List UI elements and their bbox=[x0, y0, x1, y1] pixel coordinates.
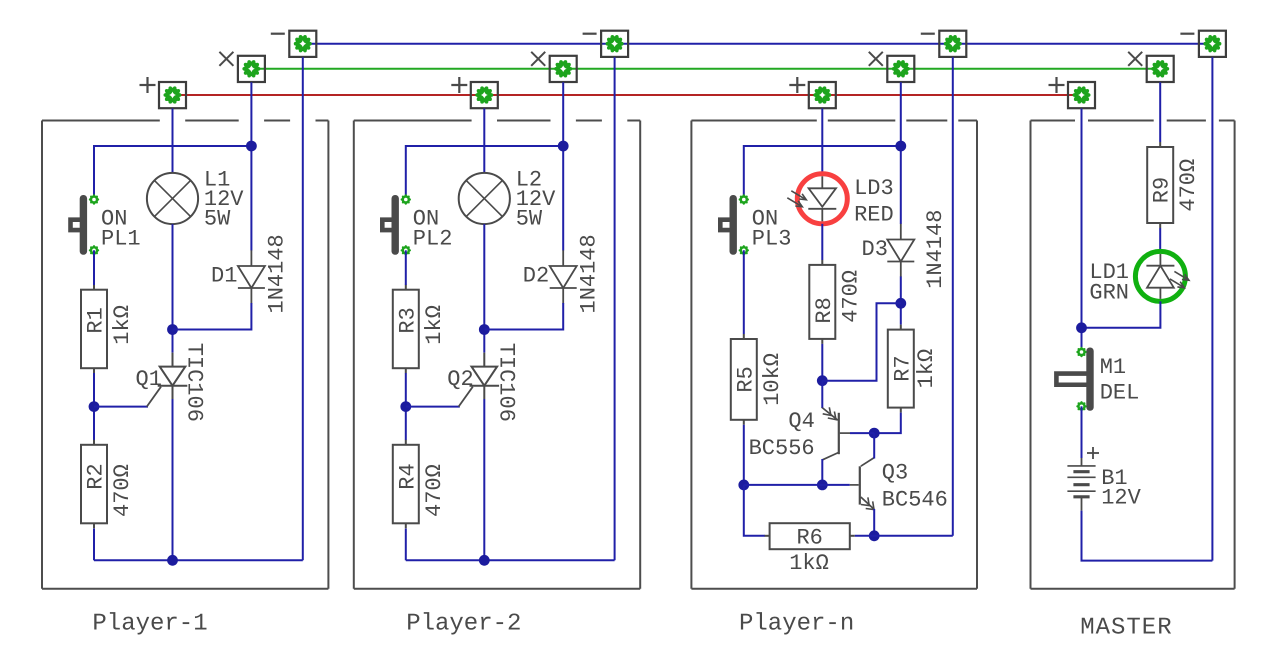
box Player-n outline bbox=[691, 121, 977, 589]
wire SCR cathode to bottom bbox=[172, 399, 174, 560]
wire Q3 collector to node bbox=[873, 433, 875, 458]
wire Q4 emitter from node bbox=[821, 381, 823, 408]
svg-text:DEL: DEL bbox=[1100, 380, 1140, 405]
wire R5 bottom to base rail bbox=[743, 425, 745, 485]
wire x terminal to R9 bbox=[1159, 82, 1161, 142]
wire R6 to bottom rail bbox=[855, 535, 953, 537]
svg-text:R2: R2 bbox=[84, 463, 109, 489]
resistor R2 bbox=[81, 440, 107, 529]
node junction bottom rail / SCR bbox=[479, 555, 490, 566]
wire - terminal down bbox=[614, 57, 616, 560]
wire top horizontal to pushbutton bbox=[406, 146, 563, 200]
svg-text:Q2: Q2 bbox=[447, 367, 473, 392]
svg-text:R3: R3 bbox=[395, 307, 420, 333]
wire R bottom to bottom rail bbox=[405, 529, 407, 561]
wire M1 to battery bbox=[1081, 406, 1083, 458]
svg-text:Q4: Q4 bbox=[788, 409, 814, 434]
resistor R1 bbox=[81, 285, 107, 374]
wire LD1 to + line bbox=[1082, 301, 1161, 327]
wire + terminal down to M1 bbox=[1081, 109, 1083, 353]
box Player-2 outline bbox=[354, 121, 640, 589]
wire top horizontal to pushbutton PL3 bbox=[744, 146, 901, 200]
resistor R6 (horizontal) bbox=[765, 523, 855, 549]
label R7 1k bbox=[890, 349, 939, 389]
svg-text:1kΩ: 1kΩ bbox=[110, 305, 135, 345]
node junction Q4 base / R7 / Q3 collector bbox=[869, 428, 880, 439]
thyristor Q2 bbox=[459, 353, 500, 407]
wire + terminal to LED LD3 bbox=[821, 109, 823, 174]
node junction gate bbox=[400, 401, 411, 412]
svg-text:R8: R8 bbox=[812, 297, 837, 323]
transistor Q4 BC556 (PNP) bbox=[822, 407, 875, 460]
svg-text:12V: 12V bbox=[1101, 485, 1141, 510]
svg-text:R7: R7 bbox=[890, 355, 915, 381]
wire lamp to SCR anode bbox=[483, 224, 485, 352]
wire R8 bottom to emitter node bbox=[821, 344, 823, 381]
LED LD3 (red) bbox=[787, 174, 847, 224]
svg-text:TIC106: TIC106 bbox=[182, 343, 207, 422]
terminal x (Player-n) bbox=[869, 52, 915, 82]
wire lamp to SCR anode bbox=[172, 224, 174, 352]
svg-text:Player-2: Player-2 bbox=[406, 611, 521, 638]
label R3 1k bbox=[395, 305, 447, 345]
svg-text:470Ω: 470Ω bbox=[110, 464, 135, 517]
wire top horizontal to pushbutton bbox=[94, 146, 251, 200]
svg-text:D2: D2 bbox=[523, 264, 549, 289]
node junction R5 / base rail / R6 bbox=[738, 480, 749, 491]
wire Q4 collector to base rail bbox=[821, 459, 823, 485]
diode D3 bbox=[887, 224, 914, 277]
svg-text:R5: R5 bbox=[733, 366, 758, 392]
transistor Q3 BC546 (NPN) bbox=[850, 458, 874, 510]
svg-text:LD3: LD3 bbox=[854, 176, 894, 201]
svg-text:1N4148: 1N4148 bbox=[265, 234, 290, 313]
terminal x (Player-1) bbox=[219, 52, 265, 82]
node junction D3 / R7 / R8 link bbox=[895, 298, 906, 309]
wire x terminal to diode bbox=[562, 82, 564, 250]
svg-text:R6: R6 bbox=[796, 525, 822, 550]
svg-text:D3: D3 bbox=[862, 237, 888, 262]
label R1 1k bbox=[84, 305, 136, 345]
terminal - (MASTER) bbox=[1180, 31, 1226, 57]
pushbutton PL2 bbox=[382, 194, 411, 255]
wire R bottom to bottom rail bbox=[93, 529, 95, 561]
resistor R8 bbox=[809, 260, 835, 344]
wire base rail bbox=[744, 484, 850, 486]
node junction x-wire / pushbutton wire bbox=[246, 141, 257, 152]
wire pushbutton to R top bbox=[405, 250, 407, 285]
label R8 470 bbox=[812, 270, 864, 324]
label R4 470 bbox=[395, 463, 447, 517]
svg-text:R9: R9 bbox=[1150, 177, 1175, 203]
terminal + (MASTER) bbox=[1049, 77, 1096, 108]
wire - terminal down bbox=[952, 57, 954, 536]
svg-text:Q3: Q3 bbox=[882, 460, 908, 485]
wire + terminal to lamp bbox=[483, 109, 485, 174]
svg-text:R1: R1 bbox=[84, 307, 109, 333]
terminal - (Player-1) bbox=[271, 31, 317, 57]
svg-text:PL1: PL1 bbox=[101, 226, 141, 251]
wire x terminal to diode bbox=[250, 82, 252, 250]
resistor R5 bbox=[731, 334, 757, 425]
wire pushbutton to R top bbox=[93, 250, 95, 285]
lamp L2 bbox=[459, 173, 510, 224]
battery B1 bbox=[1067, 447, 1099, 511]
svg-text:470Ω: 470Ω bbox=[1176, 159, 1201, 212]
svg-text:RED: RED bbox=[854, 202, 894, 227]
wire diode cathode to lamp line bbox=[484, 303, 563, 330]
svg-text:5W: 5W bbox=[516, 207, 543, 232]
svg-text:GRN: GRN bbox=[1089, 281, 1129, 306]
LED LD1 (green) bbox=[1135, 251, 1189, 301]
wire base-rail node down to R6 bbox=[744, 485, 765, 536]
svg-text:TIC106: TIC106 bbox=[493, 343, 518, 422]
terminal + (Player-n) bbox=[789, 77, 836, 108]
node junction LD1 return / + line bbox=[1076, 322, 1087, 333]
pushbutton PL3 bbox=[720, 194, 749, 255]
svg-text:1kΩ: 1kΩ bbox=[914, 349, 939, 389]
diode D1 bbox=[238, 250, 265, 303]
wire gate node to SCR gate bbox=[94, 406, 148, 408]
svg-text:10kΩ: 10kΩ bbox=[760, 353, 785, 406]
terminal - (Player-2) bbox=[583, 31, 629, 57]
svg-text:470Ω: 470Ω bbox=[422, 464, 447, 517]
svg-text:5W: 5W bbox=[204, 207, 231, 232]
wire diode cathode to lamp line bbox=[173, 303, 252, 330]
node junction bottom rail / SCR bbox=[167, 555, 178, 566]
svg-text:1N4148: 1N4148 bbox=[576, 234, 601, 313]
svg-text:Q1: Q1 bbox=[136, 367, 162, 392]
box MASTER outline bbox=[1031, 121, 1235, 589]
node junction lamp line / diode return bbox=[167, 324, 178, 335]
terminal x (Player-2) bbox=[531, 52, 577, 82]
svg-text:1kΩ: 1kΩ bbox=[789, 551, 829, 576]
wire gate node to SCR gate bbox=[406, 406, 460, 408]
lamp L1 bbox=[147, 173, 198, 224]
svg-text:MASTER: MASTER bbox=[1080, 614, 1172, 641]
svg-text:BC546: BC546 bbox=[882, 487, 948, 512]
wire - terminal down bbox=[302, 57, 304, 560]
label R5 10k bbox=[733, 353, 785, 406]
wire + terminal to lamp bbox=[172, 109, 174, 174]
node junction x-wire / pushbutton wire bbox=[558, 141, 569, 152]
svg-text:1kΩ: 1kΩ bbox=[422, 305, 447, 345]
node junction x-wire / PL3 wire bbox=[895, 141, 906, 152]
terminal + (Player-1) bbox=[140, 77, 187, 108]
resistor R7 bbox=[888, 325, 914, 413]
wire lamp-test bus (green) bbox=[251, 68, 1160, 70]
wire - terminal down bbox=[1211, 57, 1213, 560]
resistor R3 bbox=[393, 285, 419, 374]
label R2 470 bbox=[84, 463, 136, 517]
wire R bottom to gate node bbox=[405, 373, 407, 440]
svg-text:PL3: PL3 bbox=[752, 226, 792, 251]
thyristor Q1 bbox=[147, 353, 188, 407]
wire positive bus (red) bbox=[173, 94, 1082, 96]
svg-text:M1: M1 bbox=[1100, 355, 1126, 380]
diode D2 bbox=[550, 250, 577, 303]
svg-text:BC556: BC556 bbox=[749, 436, 815, 461]
box Player-1 outline bbox=[42, 121, 328, 589]
wire battery to bottom rail bbox=[1082, 511, 1213, 561]
svg-text:470Ω: 470Ω bbox=[838, 270, 863, 323]
node junction lamp line / diode return bbox=[479, 324, 490, 335]
label R9 470 bbox=[1150, 159, 1202, 212]
svg-text:R4: R4 bbox=[395, 463, 420, 489]
resistor R4 bbox=[393, 440, 419, 529]
svg-text:D1: D1 bbox=[211, 264, 237, 289]
resistor R9 bbox=[1147, 142, 1173, 228]
svg-text:Player-1: Player-1 bbox=[92, 611, 207, 638]
wire Q3 emitter to bottom rail bbox=[873, 509, 875, 536]
wire PL3 to R5 bbox=[743, 250, 745, 334]
terminal - (Player-n) bbox=[921, 31, 967, 57]
svg-text:PL2: PL2 bbox=[413, 226, 453, 251]
pushbutton M1 bbox=[1056, 347, 1093, 412]
node junction gate bbox=[89, 401, 100, 412]
terminal + (Player-2) bbox=[451, 77, 498, 108]
node junction Q4 collector / Q3 base bbox=[817, 480, 828, 491]
wire R9 to LED LD1 bbox=[1159, 228, 1161, 252]
wire SCR cathode to bottom bbox=[483, 399, 485, 560]
svg-text:1N4148: 1N4148 bbox=[923, 210, 948, 289]
wire negative bus (blue) bbox=[303, 43, 1213, 45]
wire bottom rail bbox=[406, 559, 615, 561]
wire LED LD3 to R8 bbox=[821, 224, 823, 260]
wire R7 bottom to Q4 base node bbox=[874, 413, 901, 434]
wire D3 cathode to R7 node bbox=[900, 277, 902, 325]
node junction R8 / Q4 emitter / link bbox=[817, 375, 828, 386]
terminal x (MASTER) bbox=[1128, 52, 1174, 82]
wire x terminal down to D3 bbox=[900, 82, 902, 224]
node junction Q3 emitter / bottom rail bbox=[869, 530, 880, 541]
wire R bottom to gate node bbox=[93, 373, 95, 440]
wire link emitter node to D3 node bbox=[822, 303, 901, 380]
pushbutton PL1 bbox=[71, 194, 100, 255]
svg-text:Player-n: Player-n bbox=[739, 611, 854, 638]
wire bottom rail bbox=[94, 559, 303, 561]
